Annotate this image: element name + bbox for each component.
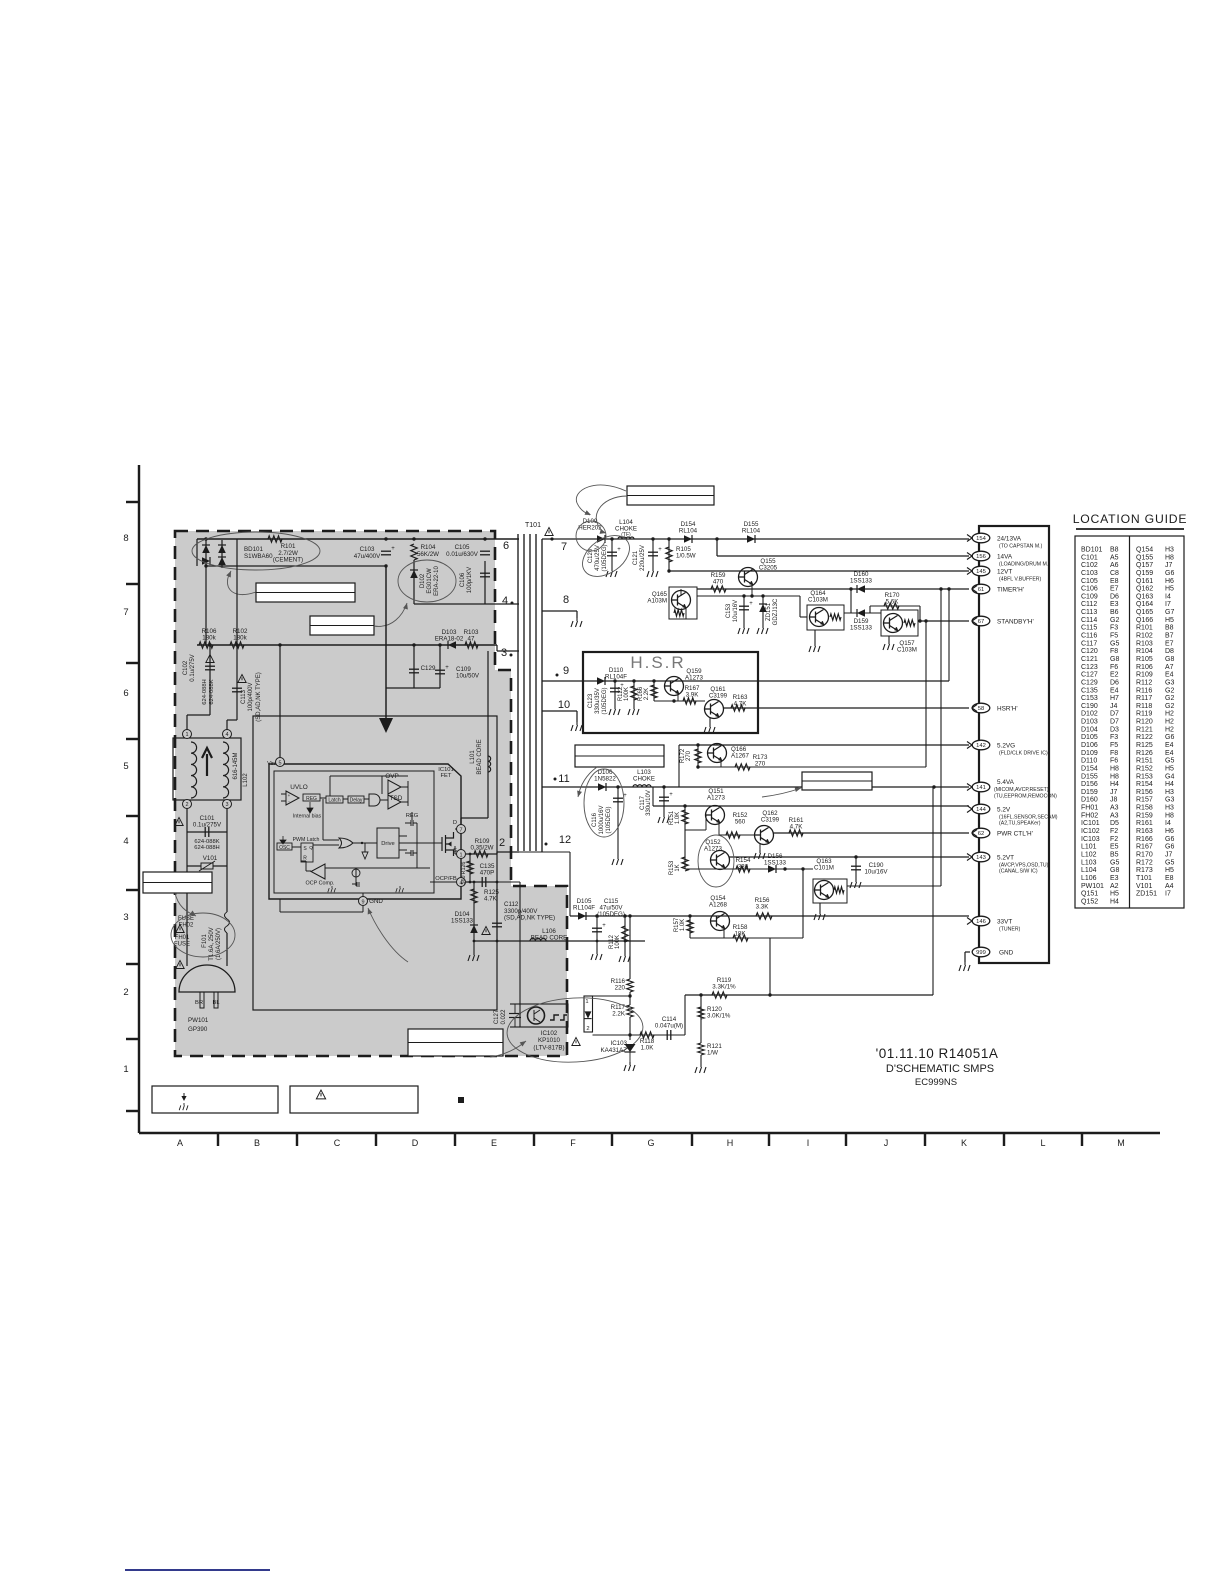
diode D110 xyxy=(597,677,605,685)
diode D155 xyxy=(747,535,755,543)
svg-text:I: I xyxy=(807,1138,810,1148)
svg-text:(TO CAPSTAN M.): (TO CAPSTAN M.) xyxy=(999,544,1043,550)
svg-text:220: 220 xyxy=(615,985,626,992)
svg-text:G3: G3 xyxy=(1165,679,1174,686)
H.S.R box xyxy=(583,652,758,733)
svg-text:F5: F5 xyxy=(1110,633,1118,640)
svg-text:S1WBA60: S1WBA60 xyxy=(244,553,273,560)
svg-text:M: M xyxy=(1117,1138,1125,1148)
svg-text:C3205: C3205 xyxy=(759,565,778,572)
svg-text:FUSE: FUSE xyxy=(174,941,190,947)
bridge rectifier BD101 xyxy=(202,545,210,553)
svg-text:(MICOM,AVCP,RESET): (MICOM,AVCP,RESET) xyxy=(994,787,1049,793)
svg-text:L106: L106 xyxy=(1081,875,1097,882)
svg-text:7: 7 xyxy=(561,541,567,553)
svg-text:B6: B6 xyxy=(1110,609,1119,616)
legend box 2 xyxy=(290,1086,418,1113)
svg-text:D104: D104 xyxy=(1081,726,1098,733)
svg-text:R152: R152 xyxy=(1136,765,1153,772)
ground at L106 row left xyxy=(473,941,475,952)
resistor R163 xyxy=(731,705,745,711)
svg-text:'01.11.10 R14051A: '01.11.10 R14051A xyxy=(876,1046,999,1061)
svg-text:180k: 180k xyxy=(233,635,247,642)
svg-text:624-088H: 624-088H xyxy=(194,845,219,851)
svg-text:B7: B7 xyxy=(1165,633,1174,640)
svg-text:142: 142 xyxy=(976,743,986,749)
svg-text:(AVCP,VPS,OSD,TU): (AVCP,VPS,OSD,TU) xyxy=(999,863,1049,869)
svg-text:ERA-22-10: ERA-22-10 xyxy=(434,566,440,596)
svg-text:12VT: 12VT xyxy=(997,569,1012,576)
svg-text:G5: G5 xyxy=(1165,758,1174,765)
annotation arrow to fuse xyxy=(175,893,196,916)
svg-text:1SS133: 1SS133 xyxy=(850,624,873,631)
wire Q152 base/emitter row xyxy=(685,868,813,870)
svg-text:GDZJ13C: GDZJ13C xyxy=(773,598,779,625)
riser 5.4VA to feedback xyxy=(932,787,934,995)
ground Q157 xyxy=(888,636,890,641)
ground Q163 xyxy=(819,903,821,911)
svg-text:GND: GND xyxy=(369,898,383,905)
svg-text:Q161: Q161 xyxy=(1136,578,1153,585)
svg-text:F8: F8 xyxy=(1110,750,1118,757)
wire 5.2V short risers near connector xyxy=(968,538,970,541)
svg-text:0.35/2W: 0.35/2W xyxy=(470,845,493,852)
svg-text:180k: 180k xyxy=(202,635,216,642)
outer solid box around controller xyxy=(253,716,497,1010)
svg-text:R101: R101 xyxy=(1136,625,1153,632)
connector pin 58 xyxy=(972,703,990,713)
svg-text:1: 1 xyxy=(585,999,588,1005)
svg-text:G2: G2 xyxy=(1165,695,1174,702)
svg-text:E8: E8 xyxy=(1110,578,1119,585)
svg-text:330u/10V: 330u/10V xyxy=(646,790,652,816)
svg-text:R157: R157 xyxy=(1136,797,1153,804)
svg-text:C123: C123 xyxy=(1081,664,1098,671)
svg-text:145: 145 xyxy=(976,569,986,575)
svg-text:E7: E7 xyxy=(1165,640,1174,647)
svg-text:R105: R105 xyxy=(1136,656,1153,663)
wire 33VT bus xyxy=(570,915,969,917)
L102 pin circles xyxy=(183,730,192,739)
svg-text:REG: REG xyxy=(306,796,317,802)
diode D156 xyxy=(768,865,776,873)
svg-text:1: 1 xyxy=(185,732,188,738)
svg-text:B5: B5 xyxy=(1110,851,1119,858)
svg-text:2: 2 xyxy=(185,802,188,808)
wire main DC bus top xyxy=(197,538,519,540)
svg-text:H4: H4 xyxy=(1165,781,1174,788)
svg-text:1SS133: 1SS133 xyxy=(764,859,787,866)
resistor R157 xyxy=(688,914,691,917)
svg-text:PW101: PW101 xyxy=(188,1017,209,1024)
wire down to optocoupler xyxy=(519,882,521,1004)
transistor Q164 xyxy=(807,605,844,630)
transistor Q161 xyxy=(705,700,724,719)
svg-text:D: D xyxy=(453,820,457,826)
capacitor C127 xyxy=(510,1003,520,1005)
svg-text:G5: G5 xyxy=(1110,640,1119,647)
bead core L101 coil xyxy=(488,756,491,772)
footer link line xyxy=(125,1569,270,1571)
resistor R104 xyxy=(411,544,417,560)
svg-text:+: + xyxy=(391,546,395,552)
svg-text:H2: H2 xyxy=(1165,719,1174,726)
svg-text:E4: E4 xyxy=(1110,687,1119,694)
annotation arrow toward GND pin xyxy=(368,908,408,962)
svg-text:270: 270 xyxy=(755,760,766,767)
svg-text:(105DEG): (105DEG) xyxy=(602,687,608,714)
wire T101 pin8 stub xyxy=(542,610,577,612)
svg-text:G6: G6 xyxy=(1165,836,1174,843)
current source symbol xyxy=(352,869,360,877)
svg-text:2: 2 xyxy=(499,837,505,849)
svg-text:G2: G2 xyxy=(1110,617,1119,624)
svg-text:H3: H3 xyxy=(1165,547,1174,554)
svg-text:F3: F3 xyxy=(1110,625,1118,632)
riser TIMER to Q163 xyxy=(940,589,942,886)
svg-text:I4: I4 xyxy=(1165,820,1171,827)
choke L103 xyxy=(633,785,651,787)
svg-text:220u/25V: 220u/25V xyxy=(640,545,646,571)
svg-text:6: 6 xyxy=(503,540,509,552)
diode D160 xyxy=(857,585,865,593)
drain wire with bead xyxy=(460,818,462,824)
resistor R166 xyxy=(652,679,655,682)
wires into L102 xyxy=(187,714,210,716)
svg-text:OSC: OSC xyxy=(279,845,290,851)
svg-text:560: 560 xyxy=(461,876,467,885)
svg-text:F6: F6 xyxy=(1110,664,1118,671)
svg-text:C120: C120 xyxy=(1081,648,1098,655)
svg-text:330u/35V: 330u/35V xyxy=(595,688,601,714)
svg-text:L102: L102 xyxy=(243,773,249,787)
wire lower primary rail xyxy=(197,644,497,646)
svg-text:D105: D105 xyxy=(1081,734,1098,741)
svg-text:1N5822: 1N5822 xyxy=(594,775,616,782)
svg-text:5.4VA: 5.4VA xyxy=(997,779,1015,786)
resistor R119 xyxy=(712,992,727,998)
svg-text:7: 7 xyxy=(123,607,128,618)
svg-text:(FLD/CLK DRIVE IC): (FLD/CLK DRIVE IC) xyxy=(999,751,1048,757)
step waveform symbol xyxy=(550,1015,567,1020)
svg-text:1/W: 1/W xyxy=(707,1049,718,1056)
svg-text:V101: V101 xyxy=(1136,883,1152,890)
svg-text:KP1010: KP1010 xyxy=(538,1037,561,1044)
OVP comparator xyxy=(388,780,401,794)
svg-text:(105DEG): (105DEG) xyxy=(597,911,625,918)
small mosfet upper xyxy=(405,820,417,826)
svg-text:J7: J7 xyxy=(1165,851,1173,858)
annotation ellipse C116 xyxy=(584,769,624,837)
wire Q154 emitter row xyxy=(690,937,803,939)
svg-text:E4: E4 xyxy=(1165,742,1174,749)
svg-text:D106: D106 xyxy=(1081,742,1098,749)
legend warning symbol xyxy=(316,1090,325,1099)
svg-text:(TUNER): (TUNER) xyxy=(999,927,1021,933)
svg-text:D160: D160 xyxy=(1081,797,1098,804)
svg-text:BEAD CORE: BEAD CORE xyxy=(531,935,567,942)
svg-text:GND: GND xyxy=(999,950,1014,957)
svg-text:5.6K: 5.6K xyxy=(886,598,900,605)
wire HSR output xyxy=(723,707,969,709)
svg-text:F: F xyxy=(570,1138,576,1148)
svg-text:G8: G8 xyxy=(1165,656,1174,663)
main FET xyxy=(442,832,454,856)
svg-text:1.0K: 1.0K xyxy=(675,812,681,824)
resistor R172 xyxy=(696,743,699,746)
svg-text:+: + xyxy=(617,547,621,553)
annotation ellipse C120 xyxy=(575,527,637,585)
white callout box top xyxy=(627,486,714,505)
resistor R126 xyxy=(469,854,471,882)
svg-text:G6: G6 xyxy=(1165,570,1174,577)
arrow into OSC xyxy=(280,836,286,844)
Delay box xyxy=(348,796,364,803)
svg-text:8: 8 xyxy=(123,533,128,544)
svg-text:1.0K: 1.0K xyxy=(641,1045,655,1052)
svg-text:TIMER'H': TIMER'H' xyxy=(997,587,1024,594)
svg-text:9: 9 xyxy=(361,900,364,906)
primary side dashed border xyxy=(175,531,567,1056)
svg-text:E: E xyxy=(491,1138,497,1148)
connector pin 62 xyxy=(972,828,990,838)
svg-text:R167: R167 xyxy=(1136,844,1153,851)
resistor R121 xyxy=(700,1038,702,1043)
svg-text:4: 4 xyxy=(225,732,228,738)
svg-text:A4: A4 xyxy=(1165,883,1174,890)
svg-text:HSR'H': HSR'H' xyxy=(997,706,1018,713)
border frame left line xyxy=(138,465,140,1133)
svg-text:D6: D6 xyxy=(1110,679,1119,686)
wire 5.2VG bus xyxy=(679,744,969,746)
svg-text:G6: G6 xyxy=(1165,734,1174,741)
resistor R116 xyxy=(627,979,633,992)
svg-text:J7: J7 xyxy=(1110,789,1118,796)
wire Q151 base row xyxy=(685,829,706,831)
plug prongs xyxy=(200,992,204,1008)
svg-text:A2: A2 xyxy=(1110,883,1119,890)
resistor R118 xyxy=(640,1032,654,1038)
svg-text:IC101: IC101 xyxy=(1081,820,1100,827)
svg-text:C135: C135 xyxy=(1081,687,1098,694)
svg-text:560: 560 xyxy=(735,818,746,825)
svg-text:R172: R172 xyxy=(1136,859,1153,866)
svg-text:A7: A7 xyxy=(1165,664,1174,671)
svg-text:IC102: IC102 xyxy=(541,1030,558,1037)
svg-text:H8: H8 xyxy=(1165,812,1174,819)
white callout box above D106 xyxy=(575,745,664,767)
svg-text:47: 47 xyxy=(468,636,475,643)
svg-text:100p/1KV: 100p/1KV xyxy=(467,567,473,593)
svg-text:R104: R104 xyxy=(1136,648,1153,655)
svg-text:+: + xyxy=(658,547,662,553)
svg-text:IC101: IC101 xyxy=(438,767,453,773)
svg-text:624-088K: 624-088K xyxy=(209,679,215,704)
wire 24/13VA bus xyxy=(542,538,969,540)
riser 5.2VG to 5.4VA xyxy=(678,745,680,787)
svg-text:ZD151: ZD151 xyxy=(766,602,772,621)
buffer triangle xyxy=(362,852,368,859)
wire D159 row xyxy=(844,612,881,614)
capacitor C109 xyxy=(439,645,441,688)
svg-text:(16FL.SENSOR,SECAM): (16FL.SENSOR,SECAM) xyxy=(999,815,1058,821)
svg-text:1SS133: 1SS133 xyxy=(451,918,474,925)
L102 arrow symbol xyxy=(202,748,212,776)
svg-text:D103: D103 xyxy=(1081,719,1098,726)
capacitor C103 xyxy=(381,551,391,555)
svg-text:G2: G2 xyxy=(1165,687,1174,694)
svg-text:B8: B8 xyxy=(1165,625,1174,632)
svg-text:156: 156 xyxy=(976,554,986,560)
annotation arrow from box to C116 xyxy=(578,767,597,797)
svg-text:H8: H8 xyxy=(1165,554,1174,561)
svg-text:R166: R166 xyxy=(1136,836,1153,843)
svg-text:D3: D3 xyxy=(1110,726,1119,733)
svg-text:C103M: C103M xyxy=(808,597,828,604)
ground at pin10 xyxy=(571,722,582,731)
ground at pin8 xyxy=(571,618,582,627)
svg-text:F6: F6 xyxy=(1110,758,1118,765)
svg-text:D159: D159 xyxy=(1081,789,1098,796)
connector pin 146 xyxy=(972,916,990,926)
svg-text:R102: R102 xyxy=(1136,633,1153,640)
wire latch to OR xyxy=(322,799,324,840)
transformer T101 secondary winding bar xyxy=(541,539,543,852)
svg-text:(TU,EEPROM,REMOCON): (TU,EEPROM,REMOCON) xyxy=(994,793,1057,799)
svg-text:(CANAL.S/W IC): (CANAL.S/W IC) xyxy=(999,869,1038,875)
svg-text:A1268: A1268 xyxy=(709,901,727,908)
svg-text:BD101: BD101 xyxy=(244,546,263,553)
transistor Q154 xyxy=(711,912,730,931)
ground Q164 xyxy=(814,630,816,643)
svg-text:ERA18-02: ERA18-02 xyxy=(435,636,464,643)
resistor R173 xyxy=(735,764,750,770)
svg-text:C114: C114 xyxy=(1081,617,1097,624)
svg-text:10u/16V: 10u/16V xyxy=(864,869,888,876)
wire GND stub xyxy=(965,951,970,953)
svg-text:R121: R121 xyxy=(1136,726,1153,733)
svg-text:H6: H6 xyxy=(1165,828,1174,835)
svg-text:FH01: FH01 xyxy=(1081,805,1098,812)
svg-text:Latch: Latch xyxy=(328,798,340,804)
wire pin12 drop xyxy=(519,851,570,853)
svg-text:10u/50V: 10u/50V xyxy=(456,673,480,680)
svg-text:PWM Latch: PWM Latch xyxy=(293,837,320,843)
wire Q159 collector riser xyxy=(948,589,950,681)
riser standby chain xyxy=(925,621,927,767)
svg-text:2.2K: 2.2K xyxy=(612,1011,626,1018)
svg-text:146: 146 xyxy=(976,919,986,925)
svg-text:G: G xyxy=(647,1138,654,1148)
capacitor C105 xyxy=(480,551,490,555)
svg-text:24/13VA: 24/13VA xyxy=(997,536,1022,543)
svg-text:J4: J4 xyxy=(1110,703,1118,710)
connector pin 142 xyxy=(972,740,990,750)
svg-text:R154: R154 xyxy=(1136,781,1153,788)
D pin circle xyxy=(455,828,461,830)
svg-text:F5: F5 xyxy=(1110,742,1118,749)
svg-text:F2: F2 xyxy=(1110,828,1118,835)
svg-text:R122: R122 xyxy=(1136,734,1153,741)
svg-text:C106: C106 xyxy=(1081,586,1098,593)
svg-text:R153: R153 xyxy=(1136,773,1153,780)
wire R173 row xyxy=(698,766,926,768)
svg-text:L104: L104 xyxy=(1081,867,1097,874)
resistor R105 xyxy=(667,537,670,540)
capacitor C121 xyxy=(651,537,654,540)
svg-text:3.3K: 3.3K xyxy=(756,903,770,910)
svg-text:C129: C129 xyxy=(1081,679,1098,686)
svg-text:154: 154 xyxy=(976,536,986,542)
svg-text:F8: F8 xyxy=(1110,648,1118,655)
svg-text:C113: C113 xyxy=(241,689,247,704)
transistor Q151 xyxy=(706,806,725,825)
svg-text:RL104F: RL104F xyxy=(605,673,627,680)
svg-text:100K: 100K xyxy=(624,687,630,701)
svg-text:0.1u/275V: 0.1u/275V xyxy=(193,822,222,829)
svg-text:H2: H2 xyxy=(1165,711,1174,718)
internal bias arrow xyxy=(307,802,313,813)
svg-text:R126: R126 xyxy=(461,862,467,875)
svg-text:2: 2 xyxy=(123,987,128,998)
svg-text:C129: C129 xyxy=(421,665,436,672)
ground Q162 xyxy=(759,843,761,850)
svg-text:PW101: PW101 xyxy=(1081,883,1104,890)
svg-text:Vin: Vin xyxy=(267,761,275,767)
svg-text:T101: T101 xyxy=(525,522,541,529)
svg-text:D154: D154 xyxy=(1081,765,1098,772)
svg-text:R125: R125 xyxy=(1136,742,1153,749)
svg-text:G7: G7 xyxy=(1165,609,1174,616)
svg-text:330: 330 xyxy=(738,863,749,870)
svg-text:T101: T101 xyxy=(1136,875,1152,882)
svg-text:IC103: IC103 xyxy=(1081,836,1100,843)
resistor R125 xyxy=(473,882,475,941)
ground Q161 xyxy=(709,717,711,724)
svg-text:6: 6 xyxy=(123,688,128,699)
annotation ellipse around fuse xyxy=(171,913,235,957)
svg-text:C127: C127 xyxy=(1081,672,1098,679)
svg-text:B8: B8 xyxy=(1110,547,1119,554)
resistor R158 xyxy=(733,935,748,941)
transistor Q152 xyxy=(711,851,730,870)
svg-text:144: 144 xyxy=(976,807,986,813)
svg-text:R106: R106 xyxy=(1136,664,1153,671)
svg-text:1SS133: 1SS133 xyxy=(850,577,873,584)
diode D105 xyxy=(578,912,586,920)
svg-text:R170: R170 xyxy=(1136,851,1153,858)
bottom ruler ticks xyxy=(217,1133,219,1146)
small black square mark xyxy=(458,1097,464,1103)
svg-text:CHOKE: CHOKE xyxy=(633,775,655,782)
svg-text:G3: G3 xyxy=(1165,797,1174,804)
diode D102 xyxy=(413,560,415,604)
transistor Q163 xyxy=(813,879,847,903)
svg-text:D'SCHEMATIC SMPS: D'SCHEMATIC SMPS xyxy=(886,1063,994,1075)
Vin pin circle 5 xyxy=(276,758,285,767)
svg-text:L102: L102 xyxy=(1081,851,1097,858)
svg-text:470: 470 xyxy=(713,579,724,586)
svg-text:C190: C190 xyxy=(1081,703,1098,710)
svg-text:+: + xyxy=(669,792,673,798)
svg-text:BR: BR xyxy=(195,1000,203,1006)
svg-text:A1273: A1273 xyxy=(685,674,703,681)
svg-text:G4: G4 xyxy=(1165,773,1174,780)
transistor Q165 xyxy=(669,587,697,619)
zener ZD151 xyxy=(762,596,764,625)
svg-text:5: 5 xyxy=(123,761,128,772)
wire C153/ZD151 row xyxy=(697,595,800,597)
